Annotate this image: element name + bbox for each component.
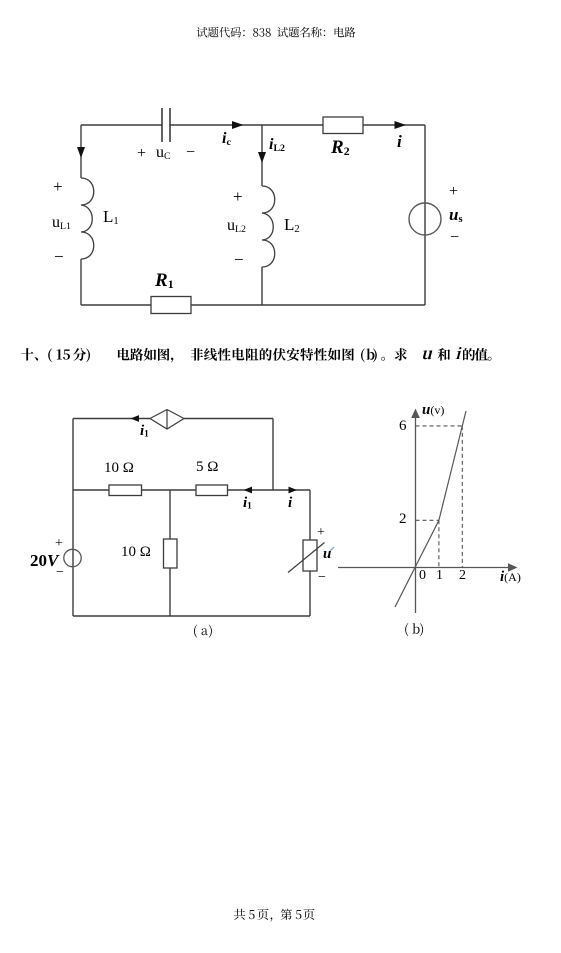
dashed guide i=1: [438, 520, 440, 567]
label 10 ohm vertical: [121, 545, 151, 560]
voltage source 20V: [64, 549, 81, 566]
axis title u(v): [422, 403, 444, 418]
wire (a) bottom: [73, 615, 310, 617]
y-axis arrowhead: [411, 409, 420, 419]
wire (a) middle branch upper: [169, 490, 171, 539]
resistor 10 ohm vertical: [164, 539, 178, 568]
label (b): [405, 623, 423, 636]
wire (a) left branch: [72, 419, 74, 617]
dashed guide u=6: [416, 425, 463, 427]
graph x-axis: [338, 567, 513, 569]
label 5 ohm: [196, 460, 218, 475]
nonlinear resistor box: [303, 540, 317, 571]
inductor L1 coil: [81, 178, 94, 259]
wire (a) mid left: [73, 489, 109, 491]
label i top right: [397, 133, 402, 150]
capacitor C plate left: [161, 108, 163, 142]
arrow i mid wire pointing right: [289, 487, 298, 494]
label + of 20V source: [55, 537, 63, 551]
wire below L2: [261, 267, 263, 305]
label L1: [103, 208, 119, 227]
label i1 mid: [243, 496, 252, 512]
label minus of uC: [186, 145, 195, 161]
axis title i(A): [500, 570, 521, 585]
wire (a) top loop right drop: [272, 419, 274, 491]
label uC: [156, 145, 171, 162]
current arrow down on left branch: [77, 147, 85, 158]
label + of uL1: [53, 178, 63, 195]
label minus of us: [450, 230, 459, 246]
label u nonlinear: [323, 547, 331, 562]
label minus of u: [318, 571, 326, 585]
wire (a) top left of source: [73, 418, 150, 420]
label ic: [222, 131, 231, 148]
resistor 5 ohm: [196, 485, 228, 496]
dashed guide u=2: [416, 519, 439, 521]
resistor 10 ohm horizontal: [109, 485, 142, 496]
label i1 top: [140, 424, 149, 440]
wire top-right segment: [170, 124, 425, 126]
label i mid: [288, 496, 292, 511]
wire (a) right branch lower: [309, 571, 311, 616]
label uL2: [227, 218, 246, 235]
wire right branch: [424, 125, 426, 305]
label R2: [331, 138, 350, 158]
wire (a) top right of source: [184, 418, 273, 420]
dependent current source diamond: [150, 410, 184, 430]
label + of us: [449, 184, 458, 200]
nonlinear resistor diagonal stroke: [288, 543, 325, 573]
origin 0: [419, 569, 426, 583]
label R1: [155, 271, 174, 291]
wire (a) mid between resistors: [142, 489, 197, 491]
header text 试题代码：838 试题名称：电路: [197, 27, 356, 38]
arrow i1 mid wire pointing left: [244, 487, 253, 494]
dashed guide i=2: [461, 426, 463, 568]
arrow i1 on top wire pointing left: [131, 415, 140, 422]
x-axis arrowhead: [508, 563, 518, 572]
current arrow ic right: [232, 121, 244, 129]
current arrow i right: [395, 121, 407, 129]
resistor R2: [323, 117, 363, 134]
wire (a) mid right: [228, 489, 311, 491]
nonlinear v-i characteristic curve: [395, 411, 466, 607]
wire below L1: [80, 259, 82, 305]
label + of uL2: [233, 188, 243, 205]
label minus of 20V source: [56, 566, 64, 580]
dependent source internal line: [166, 410, 168, 430]
ylabel 6: [399, 419, 407, 434]
label (a): [194, 625, 212, 638]
current arrow iL2 down: [258, 152, 266, 163]
wire top-left segment: [81, 124, 162, 126]
label minus of uL2: [234, 251, 244, 268]
inductor L2 coil: [262, 186, 275, 267]
footer text 共5页，第5页: [234, 909, 315, 922]
label iL2: [269, 137, 285, 154]
label 20V: [30, 552, 58, 569]
wire (a) middle branch lower: [169, 568, 171, 616]
xlabel 1: [436, 569, 443, 583]
resistor R1: [151, 297, 191, 314]
problem statement text 十、（15分）电路如图，非线性电阻的伏安特性如图（b）。求u和i的值。: [21, 347, 492, 363]
voltage source us: [409, 203, 441, 235]
label + of u: [317, 526, 325, 540]
graph y-axis: [415, 413, 417, 613]
label + of uC: [137, 146, 146, 162]
capacitor C plate right: [169, 108, 171, 142]
label 10 ohm horizontal: [104, 461, 134, 476]
label us: [449, 206, 463, 225]
stray scan artifact mark: [330, 547, 334, 551]
ylabel 2: [399, 512, 407, 527]
wire middle branch upper: [261, 125, 263, 186]
label L2: [284, 216, 300, 235]
wire (a) right branch upper: [309, 490, 311, 540]
xlabel 2: [459, 569, 466, 583]
label uL1: [52, 215, 71, 232]
wire left branch: [80, 125, 82, 178]
label minus of uL1: [54, 248, 64, 265]
wire bottom: [81, 304, 425, 306]
